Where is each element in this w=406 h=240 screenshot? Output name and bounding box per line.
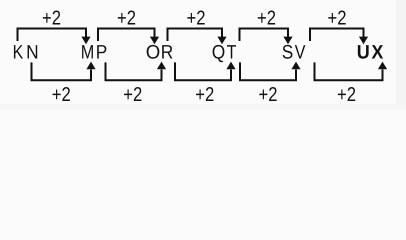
svg-text:T: T bbox=[227, 42, 237, 64]
bottom arc V to X bbox=[315, 62, 383, 80]
svg-text:X: X bbox=[372, 42, 384, 64]
up arrowhead at X bbox=[378, 62, 387, 70]
svg-text:O: O bbox=[146, 42, 161, 64]
down arrowhead at S bbox=[283, 37, 292, 45]
top arc M to O bbox=[98, 29, 155, 42]
svg-text:U: U bbox=[357, 42, 370, 64]
svg-text:N: N bbox=[26, 42, 38, 64]
bottom margin band bbox=[0, 104, 406, 110]
top arc S to U bbox=[310, 29, 364, 42]
down arrowhead at U bbox=[359, 37, 368, 45]
svg-text:+2: +2 bbox=[337, 84, 356, 106]
svg-text:M: M bbox=[81, 42, 95, 64]
svg-text:+2: +2 bbox=[117, 8, 136, 30]
svg-text:+2: +2 bbox=[257, 8, 276, 30]
bottom arc R to T bbox=[175, 62, 231, 80]
right margin band bbox=[396, 0, 406, 110]
down arrowhead at M bbox=[81, 37, 90, 45]
up arrowhead at R bbox=[157, 62, 166, 70]
top arc O to Q bbox=[168, 29, 223, 42]
up arrowhead at P bbox=[86, 62, 95, 70]
bottom arc N to P bbox=[32, 62, 92, 80]
down arrowhead at O bbox=[150, 37, 159, 45]
svg-text:+2: +2 bbox=[123, 84, 142, 106]
up arrowhead at V bbox=[291, 62, 300, 70]
up arrowhead at T bbox=[226, 62, 235, 70]
svg-text:+2: +2 bbox=[187, 8, 206, 30]
svg-text:P: P bbox=[96, 42, 108, 64]
svg-text:R: R bbox=[161, 42, 174, 64]
top arc K to M bbox=[18, 29, 87, 42]
svg-text:S: S bbox=[282, 42, 294, 64]
svg-text:K: K bbox=[13, 42, 24, 64]
svg-text:+2: +2 bbox=[328, 8, 347, 30]
svg-text:+2: +2 bbox=[195, 84, 214, 106]
bottom arc T to V bbox=[240, 62, 296, 80]
svg-text:V: V bbox=[295, 42, 306, 64]
svg-text:+2: +2 bbox=[52, 84, 71, 106]
svg-text:Q: Q bbox=[212, 42, 226, 64]
down arrowhead at Q bbox=[217, 37, 226, 45]
top arc Q to S bbox=[240, 29, 289, 42]
svg-text:+2: +2 bbox=[42, 8, 61, 30]
svg-text:+2: +2 bbox=[259, 84, 278, 106]
bottom arc P to R bbox=[106, 62, 162, 80]
